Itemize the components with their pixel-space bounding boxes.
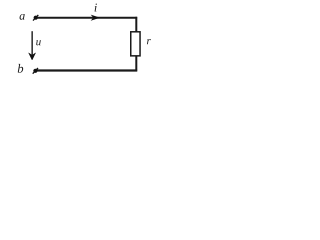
wire bottom [37, 69, 137, 71]
label b [18, 64, 23, 73]
wire right vertical upper [135, 17, 137, 32]
resistor r [131, 32, 140, 56]
wire right vertical lower [135, 56, 137, 72]
current arrowhead i [92, 15, 99, 20]
wire top [37, 17, 137, 19]
label a [20, 14, 25, 20]
label u [36, 40, 41, 45]
label r [147, 39, 151, 44]
terminal node b [33, 68, 38, 74]
voltage arrow u line [31, 31, 33, 56]
terminal node a [33, 15, 38, 21]
voltage arrowhead u [29, 53, 36, 60]
label i [95, 4, 97, 12]
